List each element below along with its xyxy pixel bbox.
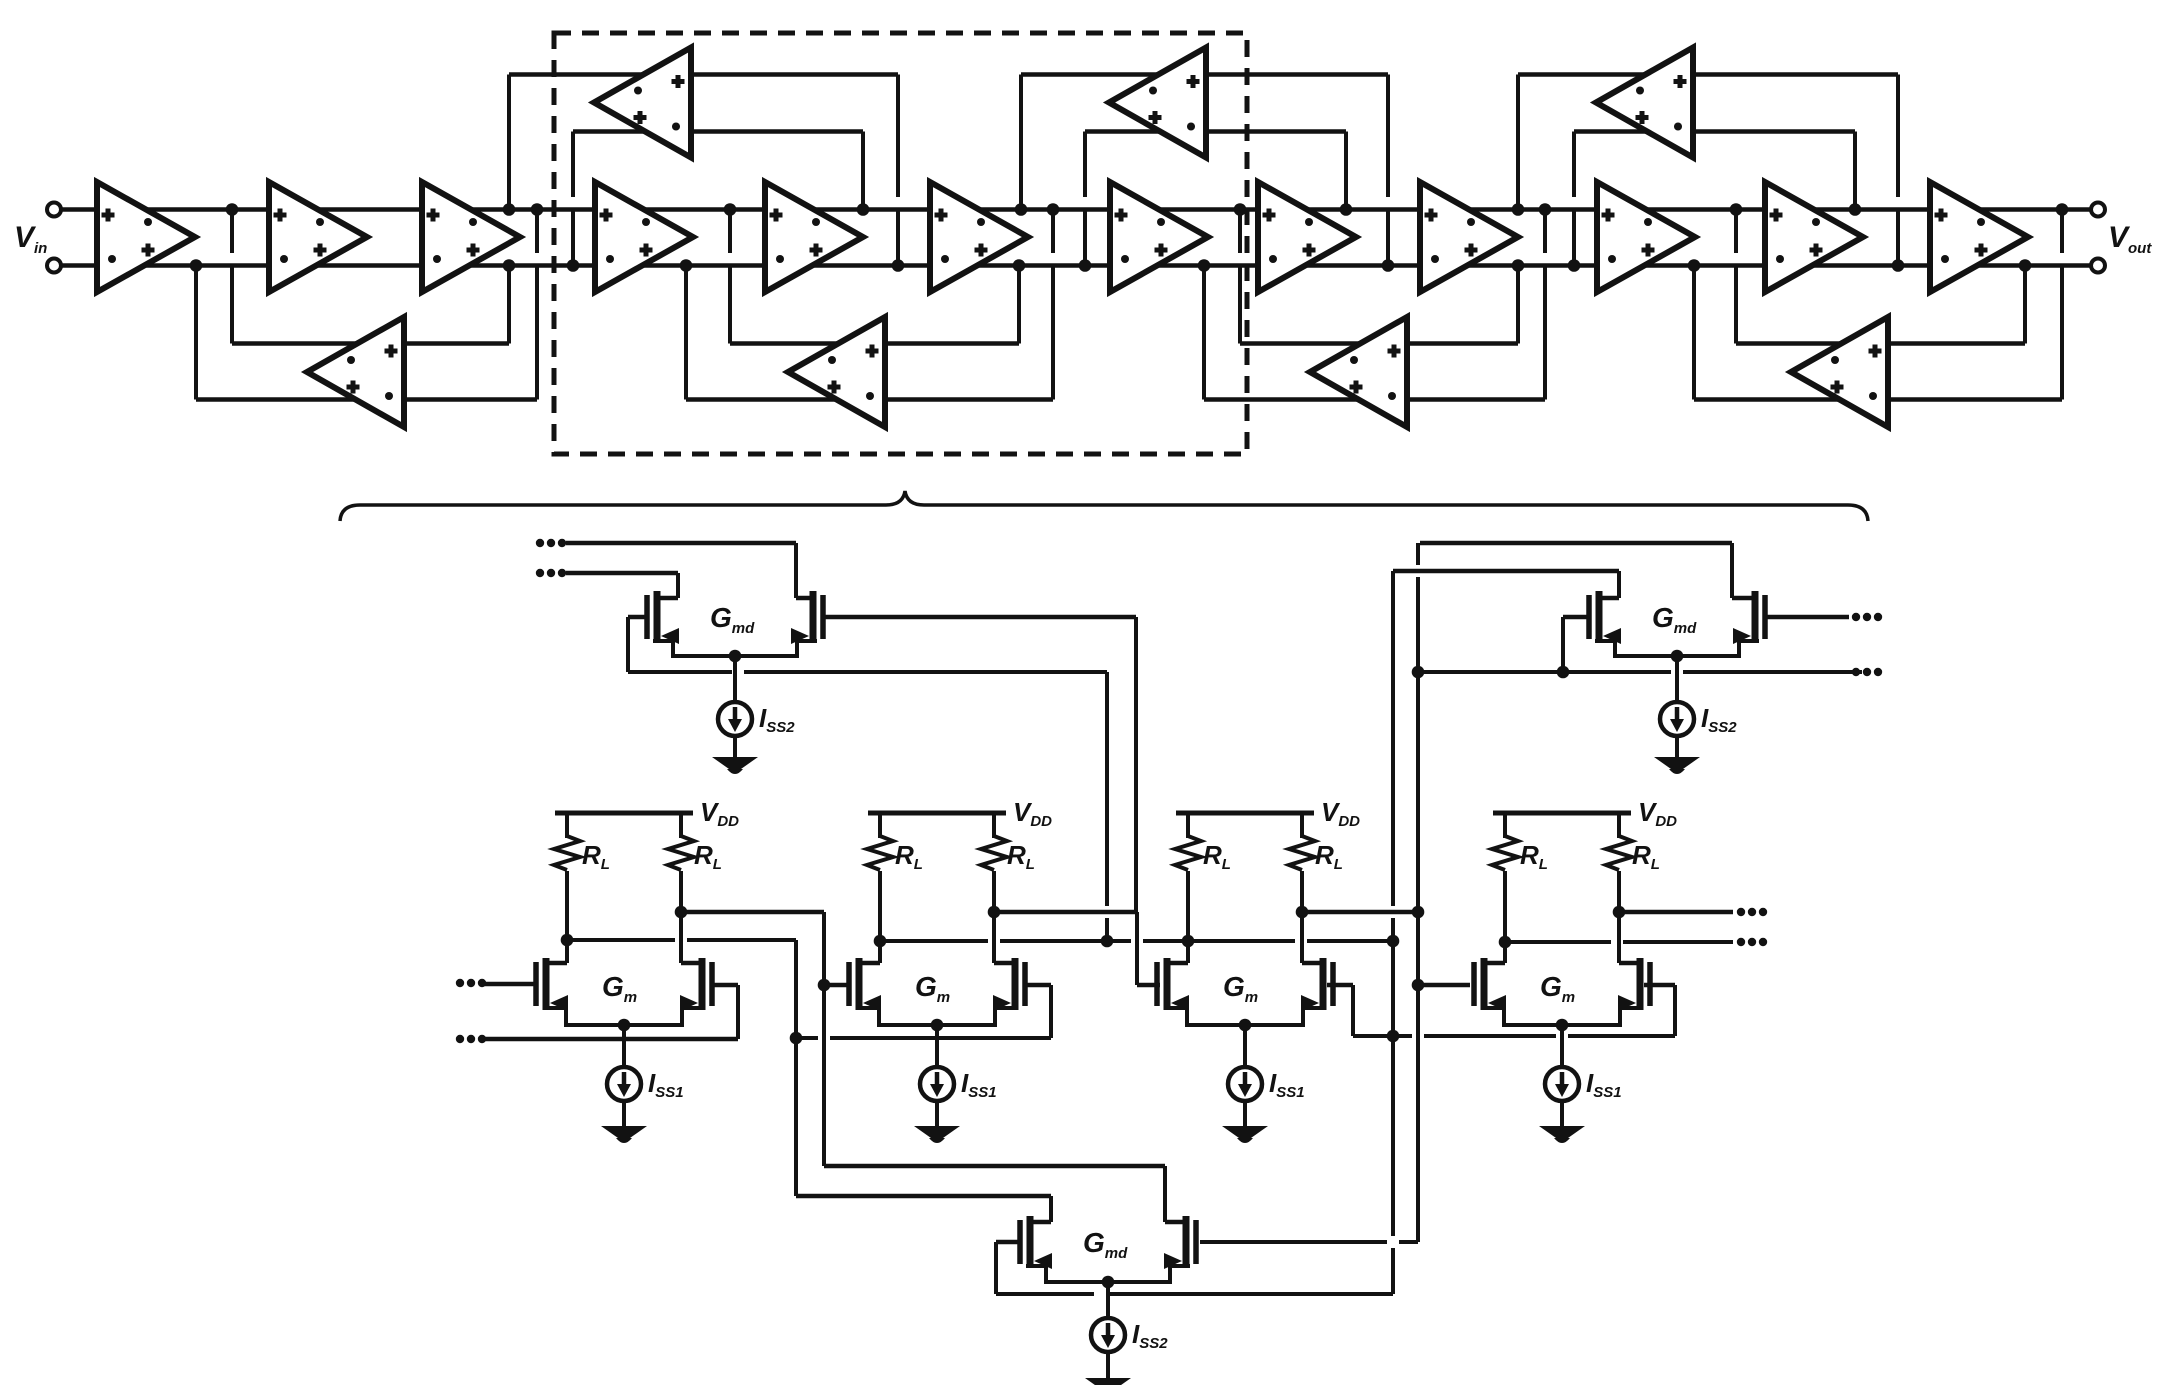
wire L3 bottom bbox=[1204, 397, 1545, 402]
output terminal Vout- bbox=[2091, 259, 2105, 273]
left drain node dot bbox=[1499, 936, 1512, 949]
wire bottom Gmd right gate lead bbox=[1200, 1240, 1387, 1244]
ground bbox=[1654, 757, 1700, 769]
transistor right of Gmd bbox=[820, 595, 826, 639]
resistor RL right bbox=[1300, 813, 1304, 838]
feedback amplifier U2 (upper Gmd) bbox=[1109, 48, 1206, 158]
wire vertical x=796 bbox=[794, 940, 798, 1196]
wire to ground bbox=[1243, 1101, 1247, 1126]
left drain node dot bbox=[561, 934, 574, 947]
tail wire bbox=[935, 1025, 939, 1067]
amplifier A9 (forward Gm stage) bbox=[1420, 182, 1518, 292]
transistor left of Gmd bbox=[1017, 1220, 1023, 1264]
ground bbox=[1222, 1126, 1268, 1138]
node dot bottom rail x=1574 bbox=[1568, 259, 1581, 272]
amplifier A6 (forward Gm stage) bbox=[930, 182, 1028, 292]
wire U2 top bbox=[1021, 72, 1388, 77]
input terminal Vin+ bbox=[47, 203, 61, 217]
node dot bottom rail x=2025 bbox=[2019, 259, 2032, 272]
wire L3 top bbox=[1240, 341, 1518, 346]
wire vertical to Gm3 left gate bbox=[1134, 617, 1138, 912]
wire Gm1 right gate lead bbox=[712, 983, 738, 988]
current source ISS2 bbox=[718, 702, 752, 736]
transistor M1 (left) of Gm cell bbox=[1154, 962, 1160, 1006]
node dot top rail x=1346 bbox=[1340, 203, 1353, 216]
drain lead left bbox=[1167, 961, 1188, 966]
wire vertical x=1545 (lower) bbox=[1543, 210, 1547, 254]
ellipsis input left bottom bbox=[536, 569, 544, 577]
VDD rail (Gm cell at x=1562) bbox=[1493, 811, 1631, 816]
wire vertical x=1898 (upper) bbox=[1896, 75, 1900, 198]
wire left drain bus y=941 bbox=[880, 939, 988, 943]
wire riser right drain Gmd1 bbox=[794, 543, 798, 598]
wire vertical x=1204 (lower) bbox=[1202, 266, 1206, 400]
wire to ground bbox=[935, 1101, 939, 1126]
node dot top rail x=1855 bbox=[1849, 203, 1862, 216]
wire riser right drain Gmd2 bbox=[1730, 543, 1734, 598]
right drain node dot bbox=[1613, 906, 1626, 919]
wire left gate jog bbox=[628, 615, 647, 620]
tail node dot bbox=[1556, 1019, 1569, 1032]
tail wire bbox=[1675, 656, 1679, 702]
node dot top rail x=1518 bbox=[1512, 203, 1525, 216]
amplifier A4 (forward Gm stage) bbox=[595, 182, 693, 292]
wire vertical x=537 (lower) bbox=[535, 210, 539, 254]
ground bbox=[712, 757, 758, 769]
brace bbox=[340, 491, 1868, 521]
right drain node dot bbox=[675, 906, 688, 919]
amplifier A11 (forward Gm stage) bbox=[1765, 182, 1863, 292]
transistor M1 (left) of Gm cell bbox=[1471, 962, 1477, 1006]
current source ISS2 bbox=[1091, 1318, 1125, 1352]
node dot bottom rail x=196 bbox=[190, 259, 203, 272]
drain lead right bbox=[994, 961, 1015, 966]
wire drain bus y=571 right bbox=[1393, 569, 1619, 574]
transistor M2 (right) of Gm cell bbox=[709, 962, 715, 1006]
wire vertical x=1574 (upper) bbox=[1572, 132, 1576, 198]
wire vertical x=509 (lower) bbox=[507, 266, 511, 344]
source bathtub wire Gmd bbox=[1026, 1266, 1190, 1282]
ellipsis Gm4 out- bbox=[1737, 908, 1745, 916]
node dot top rail x=1021 bbox=[1015, 203, 1028, 216]
resistor RL left bbox=[1503, 813, 1507, 838]
resistor RL right bbox=[1617, 813, 1621, 838]
drain lead left bbox=[1484, 961, 1505, 966]
drain lead bbox=[1598, 596, 1619, 601]
node dot bbox=[1412, 979, 1425, 992]
transistor right of Gmd bbox=[1193, 1220, 1199, 1264]
wire bottom Gmd right drain bus y=1166 bbox=[824, 1164, 1165, 1169]
feedback amplifier D1 (lower Gmd) bbox=[307, 317, 404, 427]
drain lead bbox=[1028, 1220, 1051, 1225]
wire bottom Gmd left gate riser bbox=[994, 1242, 998, 1294]
wire vertical Gmd1 left gate down bbox=[1105, 672, 1109, 906]
wire left gate jog right cell bbox=[1563, 615, 1588, 620]
wire vertical x=1053 (lower) bbox=[1051, 210, 1055, 254]
wire riser Gm3 right gate bbox=[1351, 985, 1355, 1036]
node dot bottom rail x=898 bbox=[892, 259, 905, 272]
tail wire bbox=[1560, 1025, 1564, 1067]
node dot bottom rail x=573 bbox=[567, 259, 580, 272]
transistor M2 (right) of Gm cell bbox=[1330, 962, 1336, 1006]
ground bbox=[1539, 1126, 1585, 1138]
current source ISS1 bbox=[1228, 1067, 1262, 1101]
transistor left of Gmd bbox=[644, 595, 650, 639]
input terminal Vin- bbox=[47, 259, 61, 273]
wire jog down to Gm3 left gate bbox=[1135, 912, 1139, 985]
node dot bbox=[1412, 666, 1425, 679]
wire drain bus y=543 bbox=[566, 541, 796, 546]
right drain node dot bbox=[1296, 906, 1309, 919]
wire vertical x=1418 bbox=[1416, 543, 1420, 565]
wire vertical x=1388 (upper) bbox=[1386, 75, 1390, 198]
resistor RL left bbox=[1186, 813, 1190, 838]
amplifier A10 (forward Gm stage) bbox=[1597, 182, 1695, 292]
source bathtub wire bbox=[859, 1008, 1015, 1025]
node dot bbox=[790, 1032, 803, 1045]
node dot top rail x=1240 bbox=[1234, 203, 1247, 216]
tail node dot bbox=[1239, 1019, 1252, 1032]
node dot bottom rail x=1019 bbox=[1013, 259, 1026, 272]
current source ISS1 bbox=[1545, 1067, 1579, 1101]
wire bottom Gmd left drain bus y=1196 bbox=[796, 1194, 1051, 1199]
tail wire bbox=[733, 656, 737, 702]
wire vertical x=863 (upper) bbox=[861, 132, 865, 210]
ellipsis input left top bbox=[536, 539, 544, 547]
wire Gmd1 left gate bus y=672 bbox=[628, 670, 732, 674]
node dot top rail x=537 bbox=[531, 203, 544, 216]
wire to ground bbox=[1675, 736, 1679, 757]
node dot top rail x=509 bbox=[503, 203, 516, 216]
amplifier A7 (forward Gm stage) bbox=[1110, 182, 1208, 292]
wire bus y=1036 bbox=[1353, 1034, 1412, 1038]
transistor left of Gmd bbox=[1586, 595, 1592, 639]
source bathtub wire bbox=[1484, 1008, 1640, 1025]
wire Gmd2 right gate bus y=615 bbox=[1767, 615, 1849, 620]
transistor M2 (right) of Gm cell bbox=[1022, 962, 1028, 1006]
source bathtub wire bbox=[1167, 1008, 1323, 1025]
node dot top rail x=1053 bbox=[1047, 203, 1060, 216]
drain lead bbox=[1732, 596, 1757, 601]
wire vertical x=824 bbox=[822, 912, 826, 1166]
wire Gm1 left gate bbox=[484, 982, 536, 987]
wire to ground bbox=[733, 736, 737, 757]
current source ISS1 bbox=[607, 1067, 641, 1101]
wire vertical x=1518 (upper) bbox=[1516, 75, 1520, 210]
wire vertical x=573 (upper) bbox=[571, 132, 575, 198]
feedback amplifier D2 (lower Gmd) bbox=[788, 317, 885, 427]
amplifier A5 (forward Gm stage) bbox=[765, 182, 863, 292]
node dot bottom rail x=686 bbox=[680, 259, 693, 272]
wire L1 bottom bbox=[196, 397, 537, 402]
node dot bbox=[1101, 935, 1114, 948]
ellipsis Gm1 in+ bbox=[456, 979, 464, 987]
top rail (positive) bbox=[61, 207, 2091, 212]
amplifier A1 (forward Gm stage) bbox=[97, 182, 195, 292]
node dot bottom rail x=1085 bbox=[1079, 259, 1092, 272]
wire drain bus y=543 right bbox=[1420, 541, 1732, 546]
ground bbox=[601, 1126, 647, 1138]
node dot bbox=[1412, 906, 1425, 919]
ellipsis Gm1 in- bbox=[456, 1035, 464, 1043]
VDD rail (Gm cell at x=624) bbox=[555, 811, 693, 816]
feedback amplifier U3 (upper Gmd) bbox=[1596, 48, 1693, 158]
wire jog bbox=[1163, 1166, 1167, 1222]
wire vertical x=2062 (lower) bbox=[2060, 210, 2064, 254]
wire Gm2 right gate lead bbox=[1025, 983, 1051, 988]
wire vertical x=509 (upper) bbox=[507, 75, 511, 210]
wire L4 top bbox=[1736, 341, 2025, 346]
resistor RL left bbox=[565, 813, 569, 838]
drain lead right bbox=[681, 961, 702, 966]
node dot top rail x=232 bbox=[226, 203, 239, 216]
current source ISS2 bbox=[1660, 702, 1694, 736]
wire Gm1 right drain bus y=912 bbox=[683, 910, 824, 915]
tail node dot bbox=[1102, 1276, 1115, 1289]
current source ISS1 bbox=[920, 1067, 954, 1101]
source bathtub wire bbox=[546, 1008, 702, 1025]
wire L1 top bbox=[232, 341, 509, 346]
tail node dot bbox=[931, 1019, 944, 1032]
tail wire bbox=[622, 1025, 626, 1067]
wire vertical x=1021 (upper) bbox=[1019, 75, 1023, 210]
transistor M1 (left) of Gm cell bbox=[533, 962, 539, 1006]
wire vertical x=1085 (upper) bbox=[1083, 132, 1087, 198]
output terminal Vout+ bbox=[2091, 203, 2105, 217]
wire riser Gm4 right gate bbox=[1673, 985, 1677, 1036]
wire Gm2 right drain bus y=912 bbox=[994, 910, 1137, 915]
transistor right of Gmd bbox=[1762, 595, 1768, 639]
node dot top rail x=1545 bbox=[1539, 203, 1552, 216]
wire Gm3 right gate lead bbox=[1327, 983, 1353, 988]
wire vertical x=196 (lower) bbox=[194, 266, 198, 400]
wire bottom Gmd left gate bus y=1294 bbox=[996, 1292, 1094, 1296]
node dot top rail x=1736 bbox=[1730, 203, 1743, 216]
node dot top rail x=730 bbox=[724, 203, 737, 216]
amplifier A3 (forward Gm stage) bbox=[422, 182, 520, 292]
wire riser Gm1 right gate bbox=[736, 985, 740, 1039]
wire vertical x=1240 (lower) bbox=[1238, 210, 1242, 254]
wire to ground bbox=[1560, 1101, 1564, 1126]
right drain node dot bbox=[988, 906, 1001, 919]
node dot bottom rail x=509 bbox=[503, 259, 516, 272]
wire vertical x=2025 (lower) bbox=[2023, 266, 2027, 344]
wire vertical x=232 (lower) bbox=[230, 210, 234, 254]
wire vertical x=1393 bbox=[1391, 571, 1395, 906]
wire U1 top bbox=[509, 72, 898, 77]
wire U3 bottom bbox=[1574, 129, 1855, 134]
feedback amplifier D3 (lower Gmd) bbox=[1310, 317, 1407, 427]
node dot bbox=[1557, 666, 1570, 679]
wire U1 bottom bbox=[573, 129, 863, 134]
node dot bottom rail x=1388 bbox=[1382, 259, 1395, 272]
tail node dot bbox=[729, 650, 742, 663]
ground bbox=[914, 1126, 960, 1138]
tail node dot bbox=[1671, 650, 1684, 663]
tail wire bbox=[1106, 1282, 1110, 1318]
wire riser Gm2 right gate bbox=[1049, 985, 1053, 1038]
wire Gm1 left drain bus y=940 bbox=[567, 938, 675, 942]
wire Gm4 right gate lead bbox=[1644, 983, 1675, 988]
node dot bbox=[1387, 935, 1400, 948]
tail node dot bbox=[618, 1019, 631, 1032]
resistor RL left bbox=[878, 813, 882, 838]
wire vertical x=1518 (lower) bbox=[1516, 266, 1520, 344]
wire U3 top bbox=[1518, 72, 1898, 77]
amplifier A2 (forward Gm stage) bbox=[269, 182, 367, 292]
wire Gm3 left gate lead bbox=[1137, 983, 1160, 988]
node dot bottom rail x=1898 bbox=[1892, 259, 1905, 272]
feedback amplifier U1 (upper Gmd) bbox=[594, 48, 691, 158]
node dot top rail x=2062 bbox=[2056, 203, 2069, 216]
left drain node dot bbox=[874, 935, 887, 948]
node dot top rail x=863 bbox=[857, 203, 870, 216]
wire riser left drain Gmd1 bbox=[676, 573, 680, 598]
wire to ground bbox=[1106, 1352, 1110, 1378]
wire Gmd1 right gate bus y=615 bbox=[825, 615, 1136, 620]
wire left gate lead bbox=[996, 1240, 1021, 1245]
drain lead bbox=[1165, 1220, 1186, 1225]
node dot bottom rail x=1204 bbox=[1198, 259, 1211, 272]
source bathtub wire Gmd bbox=[1595, 641, 1759, 656]
node dot bottom rail x=1694 bbox=[1688, 259, 1701, 272]
drain lead bbox=[657, 596, 678, 601]
amplifier A8 (forward Gm stage) bbox=[1258, 182, 1356, 292]
resistor RL right bbox=[679, 813, 683, 838]
amplifier A12 (forward Gm stage) bbox=[1930, 182, 2028, 292]
wire riser left drain Gmd2 bbox=[1617, 571, 1621, 598]
tail wire bbox=[1243, 1025, 1247, 1067]
wire Gmd2 gate bus y=672 bbox=[1418, 670, 1671, 674]
ground (clipped) bbox=[1085, 1378, 1131, 1385]
wire vertical x=1019 (lower) bbox=[1017, 266, 1021, 344]
wire L2 bottom bbox=[686, 397, 1053, 402]
wire vertical x=1736 (lower) bbox=[1734, 210, 1738, 254]
source bathtub wire Gmd bbox=[653, 641, 817, 656]
wire Gm3 right drain bus y=912 bbox=[1301, 910, 1418, 915]
resistor RL right bbox=[992, 813, 996, 838]
wire Gm2 left gate lead bbox=[824, 983, 849, 988]
wire bus y=1038 under Gm2 bbox=[796, 1036, 818, 1040]
drain lead left bbox=[546, 961, 567, 966]
wire Gm4 left gate lead bbox=[1418, 983, 1470, 988]
wire drain bus y=573 bbox=[566, 571, 678, 576]
wire L4 bottom bbox=[1694, 397, 2062, 402]
feedback amplifier D4 (lower Gmd) bbox=[1791, 317, 1888, 427]
transistor M2 (right) of Gm cell bbox=[1647, 962, 1653, 1006]
drain lead bbox=[796, 596, 813, 601]
wire Gm1 lower input bus bbox=[484, 1037, 738, 1042]
VDD rail (Gm cell at x=1245) bbox=[1176, 811, 1314, 816]
wire jog bbox=[1049, 1196, 1053, 1222]
node dot bbox=[818, 979, 831, 992]
wire vertical x=686 (lower) bbox=[684, 266, 688, 400]
ellipsis right bottom bbox=[1852, 668, 1860, 676]
wire U2 bottom bbox=[1085, 129, 1346, 134]
VDD rail (Gm cell at x=937) bbox=[868, 811, 1006, 816]
wire vertical x=730 (lower) bbox=[728, 210, 732, 254]
drain lead right bbox=[1619, 961, 1640, 966]
node dot bbox=[1387, 1030, 1400, 1043]
ellipsis Gm4 out+ bbox=[1737, 938, 1745, 946]
wire vertical x=898 (upper) bbox=[896, 75, 900, 198]
drain lead right bbox=[1302, 961, 1323, 966]
ellipsis right top bbox=[1852, 613, 1860, 621]
wire Gm4 left drain out bbox=[1503, 940, 1611, 944]
left drain node dot bbox=[1182, 935, 1195, 948]
dashed box (unit cell) bbox=[554, 33, 1247, 454]
wire vertical x=1694 (lower) bbox=[1692, 266, 1696, 400]
drain lead left bbox=[859, 961, 880, 966]
wire L2 top bbox=[730, 341, 1019, 346]
wire vertical x=1855 (upper) bbox=[1853, 132, 1857, 210]
transistor M1 (left) of Gm cell bbox=[846, 962, 852, 1006]
bottom rail (negative) bbox=[61, 263, 2091, 268]
wire to ground bbox=[622, 1101, 626, 1126]
wire vertical x=1346 (upper) bbox=[1344, 132, 1348, 210]
node dot bottom rail x=1518 bbox=[1512, 259, 1525, 272]
wire Gm4 right drain out bbox=[1617, 910, 1733, 915]
